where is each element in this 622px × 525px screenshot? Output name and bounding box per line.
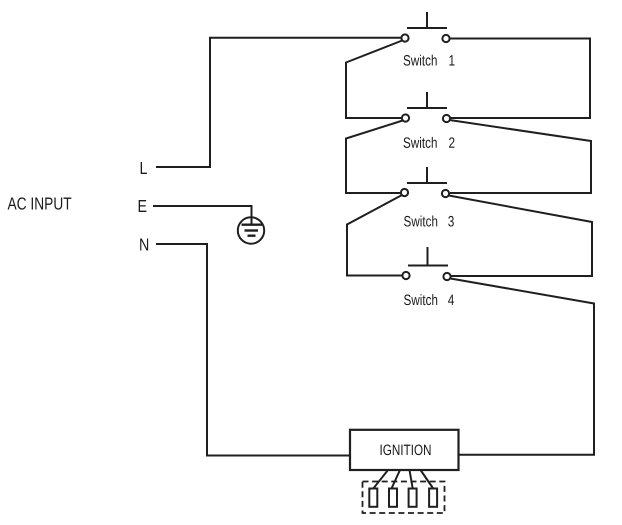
wire Switch 1 left contact down-left to Switch 2 left contact <box>346 41 402 119</box>
switch SW2 push-button actuator <box>407 92 447 108</box>
wire Switch 3 left contact down-left to Switch 4 left contact <box>347 195 402 276</box>
terminal label L <box>141 162 147 174</box>
wire IGNITION to igniter 3 <box>410 470 413 489</box>
wire IGNITION to igniter 2 <box>392 470 401 489</box>
igniter element 4 <box>429 489 437 507</box>
igniter element 3 <box>409 489 417 507</box>
switch SW3 push-button actuator <box>407 167 447 183</box>
label Switch 2 <box>404 137 437 148</box>
switch SW1 left contact <box>401 34 408 41</box>
wire E terminal to earth symbol <box>153 206 252 224</box>
terminal label E <box>139 200 147 212</box>
wire Switch 2 left contact down-left to Switch 3 left contact <box>346 121 403 194</box>
label AC INPUT <box>8 197 72 209</box>
switch SW4 right contact <box>443 273 450 280</box>
wire IGNITION to igniter 4 <box>421 470 434 489</box>
switch SW4 left contact <box>402 272 409 279</box>
terminal label N <box>140 239 148 251</box>
wire IGNITION to igniter 1 <box>373 470 388 489</box>
wire Switch 2 right contact down-right to Switch 3 right contact <box>450 120 592 193</box>
wire N terminal down to IGNITION box <box>156 244 349 456</box>
switch SW3 left contact <box>401 189 408 196</box>
wire Switch 4 right contact down to IGNITION box <box>451 279 595 455</box>
label Switch 1 <box>404 55 437 66</box>
label IGNITION <box>381 445 431 456</box>
igniter connector dashed enclosure <box>363 482 445 514</box>
IGNITION module box <box>350 430 459 470</box>
wire Switch 3 right contact down-right to Switch 4 right contact <box>449 196 592 277</box>
igniter element 1 <box>369 489 377 507</box>
label Switch 4 <box>404 294 437 305</box>
earth ground symbol <box>238 217 264 243</box>
switch SW1 push-button actuator <box>407 12 447 28</box>
switch SW1 right contact <box>442 35 449 42</box>
switch SW2 right contact <box>443 115 450 122</box>
wire L terminal up to Switch 1 left contact <box>156 38 401 167</box>
label Switch 3 <box>404 216 437 227</box>
igniter element 2 <box>389 489 397 507</box>
switch SW2 left contact <box>402 114 409 121</box>
switch SW4 push-button actuator <box>408 247 448 266</box>
switch SW3 right contact <box>442 190 449 197</box>
wire Switch 1 right contact right and down to Switch 2 right contact <box>450 39 590 119</box>
